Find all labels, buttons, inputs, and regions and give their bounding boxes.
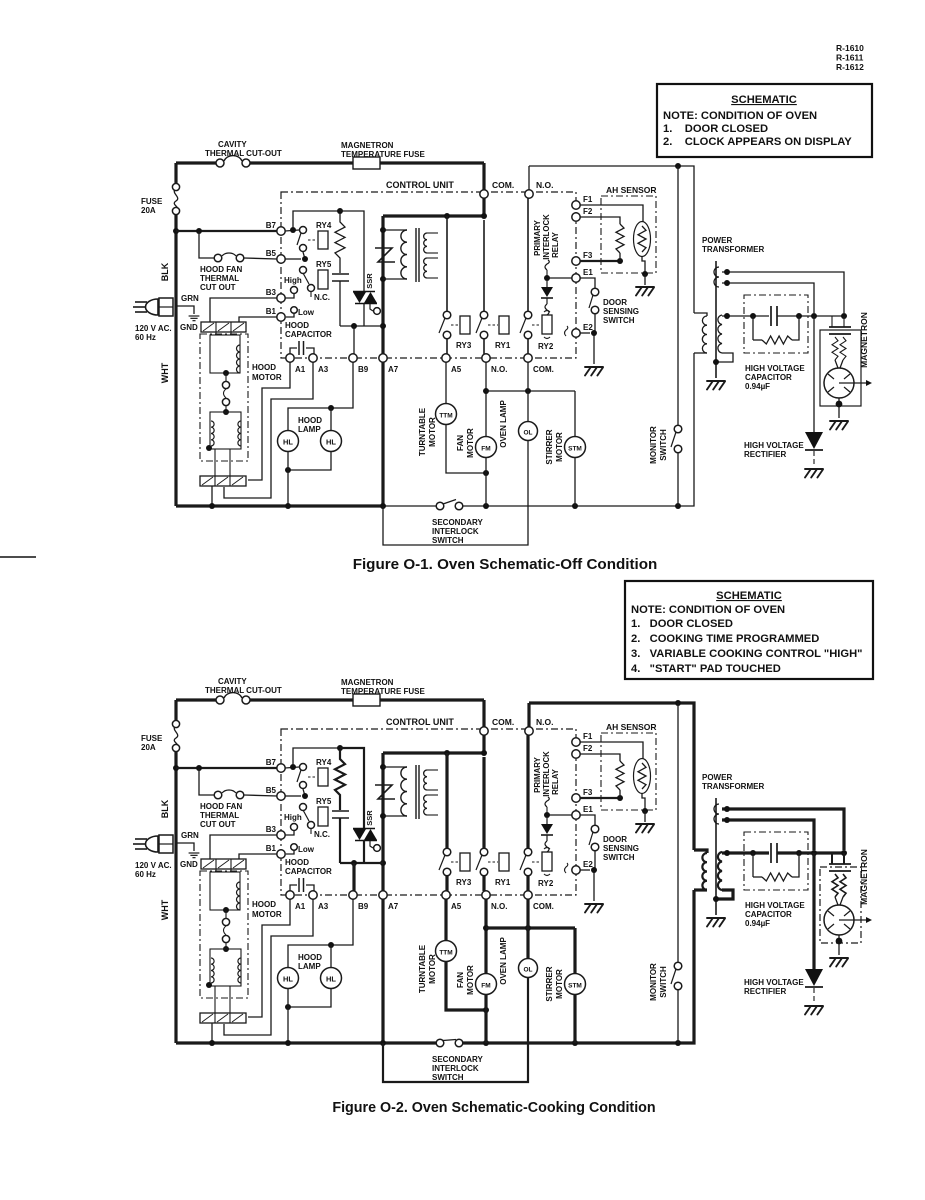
terminal COM. bottom (fig O-1) <box>524 354 532 362</box>
svg-text:Figure O-1. Oven Schematic-Off: Figure O-1. Oven Schematic-Off Condition <box>353 556 658 573</box>
relay RY1 coil (fig O-2) <box>488 853 509 871</box>
wire RY3 column (fig O-2) <box>445 753 448 848</box>
lamp OL (fig O-1) <box>519 422 538 441</box>
node HV mag (fig O-2) <box>841 850 847 856</box>
AH sensor box (fig O-2) <box>601 733 656 810</box>
svg-text:HL: HL <box>326 975 336 984</box>
control unit box (fig O-2) <box>281 729 576 895</box>
relay RY1 contact (fig O-2) <box>476 848 488 876</box>
PIR lower hook (fig O-1) <box>545 304 549 315</box>
label HIGH VOLTAGE CAPACITOR 0.94uF (fig O-2) <box>745 901 805 928</box>
wire door switch to ground (fig O-2) <box>594 851 595 901</box>
svg-text:20A: 20A <box>141 743 156 752</box>
svg-text:MOTOR: MOTOR <box>428 417 437 447</box>
ground HV rectifier (fig O-2) <box>805 1006 823 1015</box>
wire B3 to High (fig O-2) <box>285 831 294 835</box>
wire monitor to neutral (fig O-1) <box>677 453 679 506</box>
relay RY3 coil (fig O-1) <box>451 316 470 334</box>
svg-text:F2: F2 <box>583 207 593 216</box>
lamp HL 2 (fig O-2) <box>321 968 342 989</box>
HV bleed resistor (fig O-2) <box>753 853 799 881</box>
svg-text:FM: FM <box>481 983 490 990</box>
svg-text:GRN: GRN <box>181 294 199 303</box>
node SSR feed (fig O-1) <box>337 208 343 214</box>
wire RY2 column (fig O-1) <box>527 198 529 311</box>
svg-text:NOTE: CONDITION OF OVEN: NOTE: CONDITION OF OVEN <box>631 604 785 616</box>
node upper winding out (fig O-2) <box>223 907 229 913</box>
svg-text:LAMP: LAMP <box>298 425 321 434</box>
svg-text:RY3: RY3 <box>456 878 472 887</box>
label High (fig O-1) <box>284 276 302 285</box>
label HOOD LAMP (fig O-2) <box>298 953 322 971</box>
label F1 (fig O-1) <box>583 195 593 204</box>
wire F3 lead (fig O-2) <box>580 797 618 799</box>
wire TTM return (fig O-1) <box>446 424 486 473</box>
lamp HL 2 (fig O-1) <box>321 431 342 452</box>
hood fan thermal cut out (fig O-1) <box>214 253 244 262</box>
hood motor upper winding (fig O-2) <box>210 872 240 910</box>
label OVEN LAMP (fig O-2) <box>499 937 508 985</box>
svg-text:FAN: FAN <box>456 972 465 988</box>
svg-text:HIGH VOLTAGE: HIGH VOLTAGE <box>745 364 805 373</box>
wire door switch to ground (fig O-1) <box>594 314 595 364</box>
wire RY3 to A5 (fig O-1) <box>446 339 448 354</box>
wire hood fan cutout drop (fig O-2) <box>199 768 214 795</box>
PIR top hook (fig O-2) <box>545 797 549 815</box>
node E2 junction (fig O-1) <box>591 330 597 336</box>
wire SSR feed top (fig O-1) <box>340 211 364 291</box>
wire RY1 column (fig O-1) <box>483 220 485 311</box>
svg-text:F2: F2 <box>583 744 593 753</box>
capacitor C (snubber) (fig O-1) <box>332 274 349 281</box>
svg-text:MOTOR: MOTOR <box>466 428 475 458</box>
wire COM drop (fig O-1) <box>482 163 485 190</box>
wire B5 to selector (fig O-2) <box>285 795 301 797</box>
svg-text:SWITCH: SWITCH <box>659 429 668 461</box>
label FUSE 20A (fig O-1) <box>141 197 163 215</box>
terminal COM top (fig O-2) <box>480 727 488 735</box>
label COM. bottom (fig O-1) <box>533 365 554 374</box>
label B1 (fig O-1) <box>266 307 277 316</box>
svg-text:A5: A5 <box>451 902 462 911</box>
magnetron filament chokes (fig O-2) <box>832 874 846 905</box>
label A7 bottom (fig O-2) <box>388 902 399 911</box>
ground AH sensor (fig O-2) <box>636 824 654 833</box>
svg-text:120 V AC.: 120 V AC. <box>135 324 172 333</box>
svg-text:A7: A7 <box>388 902 399 911</box>
svg-text:MAGNETRON: MAGNETRON <box>859 312 869 368</box>
wire block to neutral (fig O-1) <box>211 486 213 506</box>
node bus RY3 tap (fig O-1) <box>444 213 450 219</box>
svg-text:A7: A7 <box>388 365 399 374</box>
wire filament lead 1 (fig O-1) <box>722 272 844 313</box>
relay RY2 contact (fig O-2) <box>520 848 532 876</box>
svg-text:CONTROL UNIT: CONTROL UNIT <box>386 717 454 727</box>
svg-text:RY4: RY4 <box>316 758 332 767</box>
node neutral plug (fig O-2) <box>209 1040 215 1046</box>
wire BLK trunk to plug (fig O-2) <box>174 752 177 837</box>
label N.O. top (fig O-1) <box>536 180 553 190</box>
svg-text:A3: A3 <box>318 902 329 911</box>
HV capacitor box (fig O-2) <box>744 832 808 890</box>
label E1 (fig O-1) <box>583 268 593 277</box>
node hood fan tap (fig O-1) <box>196 228 202 234</box>
svg-text:E2: E2 <box>583 323 593 332</box>
svg-text:TEMPERATURE FUSE: TEMPERATURE FUSE <box>341 687 426 696</box>
monitor switch (fig O-2) <box>671 962 682 990</box>
wire primary feed (fig O-2) <box>694 850 707 853</box>
svg-text:B9: B9 <box>358 365 369 374</box>
fuse F1 20A (fig O-2) <box>172 720 179 751</box>
wire A5 to TTM (fig O-1) <box>445 362 447 404</box>
hood capacitor (fig O-2) <box>290 878 314 892</box>
wire primary return (fig O-1) <box>694 352 707 354</box>
svg-text:WHT: WHT <box>160 362 170 383</box>
svg-text:HL: HL <box>283 438 293 447</box>
svg-text:B3: B3 <box>266 825 277 834</box>
svg-text:F3: F3 <box>583 251 593 260</box>
wire AH ground stem (fig O-1) <box>644 274 646 285</box>
node HV sec (fig O-2) <box>724 850 730 856</box>
wire WHT neutral trunk (fig O-2) <box>174 837 177 1043</box>
label HOOD CAPACITOR (fig O-1) <box>285 321 332 339</box>
wire F3 lead (fig O-1) <box>580 260 618 262</box>
svg-text:BLK: BLK <box>160 799 170 818</box>
wire HV rectifier ground lead (fig O-2) <box>813 988 815 1003</box>
terminal E1 (fig O-2) <box>572 811 580 819</box>
label B3 (fig O-1) <box>266 288 277 297</box>
svg-text:SENSING: SENSING <box>603 307 639 316</box>
node SSR return tap (fig O-2) <box>380 860 386 866</box>
wire LVT primary bottom lead (fig O-2) <box>383 815 407 817</box>
AH sensor thermistor (fig O-2) <box>634 759 651 794</box>
wire E1 to PIR (fig O-1) <box>547 277 572 279</box>
label AH SENSOR (fig O-2) <box>606 722 657 732</box>
svg-text:SWITCH: SWITCH <box>603 316 635 325</box>
svg-text:RY2: RY2 <box>538 879 554 888</box>
node HV sec (fig O-1) <box>724 313 730 319</box>
svg-text:SECONDARY: SECONDARY <box>432 518 483 527</box>
svg-text:Low: Low <box>298 308 315 317</box>
wire HV bus right (fig O-2) <box>777 851 844 854</box>
label HOOD FAN THERMAL CUT OUT (fig O-2) <box>200 802 242 829</box>
wire RY1 to N.O. (fig O-2) <box>482 876 485 891</box>
label HOOD LAMP (fig O-1) <box>298 416 322 434</box>
ground PT core (fig O-1) <box>707 381 725 390</box>
motor STM (fig O-2) <box>565 974 586 995</box>
terminal B3 (fig O-1) <box>277 294 285 302</box>
wire RY4 to B5 node (fig O-2) <box>303 789 305 796</box>
wire A3 to hood motor (fig O-1) <box>224 362 313 498</box>
wire E2 link (fig O-1) <box>565 326 591 336</box>
svg-text:WHT: WHT <box>160 899 170 920</box>
node hood lamp tap (fig O-1) <box>328 405 334 411</box>
terminal A3 bottom (fig O-2) <box>309 891 317 899</box>
svg-text:MOTOR: MOTOR <box>428 954 437 984</box>
relay RY4 coil (fig O-1) <box>308 231 328 249</box>
relay RY2 contact (fig O-1) <box>520 311 532 339</box>
label F3 (fig O-2) <box>583 788 593 797</box>
lamp HL 1 (fig O-2) <box>278 968 299 989</box>
wire primary return (fig O-2) <box>694 888 707 891</box>
wire F2 lead (fig O-2) <box>580 754 620 761</box>
secondary interlock switch (fig O-1) <box>436 500 463 510</box>
hood motor terminal block top (fig O-2) <box>201 859 246 869</box>
node F3 (fig O-1) <box>617 258 623 264</box>
AH sensor thermistor (fig O-1) <box>634 222 651 257</box>
terminal N.O. top (fig O-2) <box>525 727 533 735</box>
svg-text:B1: B1 <box>266 307 277 316</box>
label A1 bottom (fig O-2) <box>295 902 306 911</box>
wire top right line (fig O-1) <box>529 166 694 313</box>
svg-text:Low: Low <box>298 845 315 854</box>
terminal B7 (fig O-2) <box>277 764 285 772</box>
PT core (fig O-2) <box>715 798 717 915</box>
svg-text:THERMAL CUT-OUT: THERMAL CUT-OUT <box>205 149 282 158</box>
svg-text:FM: FM <box>481 446 490 453</box>
hood motor lower winding (fig O-1) <box>210 412 241 449</box>
label F1 (fig O-2) <box>583 732 593 741</box>
wire lamp returns (fig O-1) <box>288 451 331 470</box>
wire B1 to terminal block (fig O-1) <box>239 317 277 322</box>
svg-text:N.C.: N.C. <box>314 293 330 302</box>
label 120 V AC. 60 Hz (fig O-2) <box>135 861 172 879</box>
svg-text:120 V AC.: 120 V AC. <box>135 861 172 870</box>
label RY3 (fig O-1) <box>456 341 472 350</box>
diode PIR (fig O-2) <box>541 818 553 841</box>
wire filament lead 2 (fig O-2) <box>722 820 814 850</box>
svg-text:High: High <box>284 276 302 285</box>
svg-text:COM.: COM. <box>492 717 514 727</box>
left margin tick <box>0 556 36 558</box>
wire HV rectifier column (fig O-1) <box>813 316 815 432</box>
wire magnetron cathode (fig O-2) <box>838 935 840 955</box>
wire HV rectifier column (fig O-2) <box>812 853 815 969</box>
label HOOD CAPACITOR (fig O-2) <box>285 858 332 876</box>
wire F1 lead (fig O-2) <box>580 742 643 759</box>
terminal F3 (fig O-2) <box>572 794 580 802</box>
node neutral A7 (fig O-1) <box>380 503 386 509</box>
svg-text:NOTE: CONDITION OF OVEN: NOTE: CONDITION OF OVEN <box>663 110 817 122</box>
svg-text:MAGNETRON: MAGNETRON <box>341 678 394 687</box>
terminal A7 bottom (fig O-2) <box>379 891 387 899</box>
svg-text:N.O.: N.O. <box>491 902 507 911</box>
svg-text:A3: A3 <box>318 365 329 374</box>
wire RY3 to A5 (fig O-2) <box>445 876 448 891</box>
relay RY4 coil (fig O-2) <box>308 768 328 786</box>
terminal A5 bottom (fig O-1) <box>442 354 450 362</box>
wire hood fan cutout drop (fig O-1) <box>199 231 214 258</box>
wire monitor trunk (fig O-1) <box>677 166 679 425</box>
relay RY2 coil (fig O-1) <box>532 311 552 339</box>
svg-text:MAGNETRON: MAGNETRON <box>341 141 394 150</box>
contact N.C. (fig O-1) <box>308 285 315 298</box>
resistor R (snubber) (fig O-2) <box>335 750 345 810</box>
wire cap to return (fig O-2) <box>339 818 341 863</box>
svg-text:MOTOR: MOTOR <box>466 965 475 995</box>
node right trunk top (fig O-1) <box>675 163 681 169</box>
PT core (fig O-1) <box>715 261 717 378</box>
fuse F1 20A (fig O-1) <box>172 183 179 214</box>
node hood lamp tap (fig O-2) <box>328 942 334 948</box>
label A1 bottom (fig O-1) <box>295 365 306 374</box>
wire lamp returns (fig O-2) <box>288 988 331 1007</box>
LVT primary winding (fig O-1) <box>401 230 407 279</box>
node neutral fan (fig O-1) <box>483 503 489 509</box>
label AH SENSOR (fig O-1) <box>606 185 657 195</box>
svg-text:B9: B9 <box>358 902 369 911</box>
svg-text:A1: A1 <box>295 902 306 911</box>
node HV rect (fig O-1) <box>811 313 817 319</box>
svg-text:0.94µF: 0.94µF <box>745 382 770 391</box>
node PIR (fig O-1) <box>544 275 550 281</box>
wire N.O. riser (fig O-1) <box>528 166 530 190</box>
label HIGH VOLTAGE RECTIFIER (fig O-1) <box>744 441 804 459</box>
node OL branch (fig O-2) <box>525 925 531 931</box>
svg-text:MONITOR: MONITOR <box>649 426 658 464</box>
wire B9 column (fig O-2) <box>352 863 355 891</box>
wire secondary return (fig O-1) <box>716 353 733 362</box>
wire N.O. to FM (fig O-1) <box>485 362 487 437</box>
svg-text:THERMAL: THERMAL <box>200 274 239 283</box>
svg-text:SENSING: SENSING <box>603 844 639 853</box>
wire cutout to B5 (fig O-2) <box>244 795 277 796</box>
label E2 (fig O-2) <box>583 860 593 869</box>
contact Low (fig O-2) <box>291 844 298 851</box>
node HV mag (fig O-1) <box>841 313 847 319</box>
svg-text:AH SENSOR: AH SENSOR <box>606 185 657 195</box>
svg-text:A1: A1 <box>295 365 306 374</box>
note box 2 (cooking condition) <box>625 581 873 679</box>
svg-text:B5: B5 <box>266 249 277 258</box>
wire LVT primary top lead (fig O-1) <box>383 229 407 231</box>
relay RY3 coil (fig O-2) <box>451 853 470 871</box>
terminal E2 (fig O-1) <box>572 329 580 337</box>
node core ground (fig O-2) <box>713 896 719 902</box>
svg-text:HIGH VOLTAGE: HIGH VOLTAGE <box>744 978 804 987</box>
svg-text:POWER: POWER <box>702 236 732 245</box>
node lamp return (fig O-1) <box>285 467 291 473</box>
wire N.O. riser (fig O-2) <box>527 703 530 727</box>
node filament lead 2 (fig O-2) <box>724 817 730 823</box>
wire sensor bottom link (fig O-1) <box>619 253 621 261</box>
wire neutral bus right (fig O-1) <box>463 353 694 506</box>
label GND (fig O-1) <box>180 323 198 332</box>
svg-text:B1: B1 <box>266 844 277 853</box>
svg-text:N.O.: N.O. <box>491 365 507 374</box>
svg-text:3. VARIABLE COOKING CONTROL: 3. VARIABLE COOKING CONTROL "HIGH" <box>631 648 862 660</box>
wire FM return (fig O-1) <box>485 457 487 506</box>
svg-text:STM: STM <box>568 446 582 453</box>
wire HV bus (fig O-1) <box>722 315 769 317</box>
label High (fig O-2) <box>284 813 302 822</box>
terminal B1 (fig O-1) <box>277 313 285 321</box>
wire COM drop (fig O-2) <box>482 700 485 727</box>
terminal N.O. bottom (fig O-2) <box>482 891 490 899</box>
wire GRN lead (fig O-2) <box>176 843 194 851</box>
svg-text:MOTOR: MOTOR <box>555 969 564 999</box>
label N.O. bottom (fig O-1) <box>491 365 507 374</box>
wire WHT neutral trunk (fig O-1) <box>174 300 177 506</box>
node core ground (fig O-1) <box>713 359 719 365</box>
svg-text:POWER: POWER <box>702 773 732 782</box>
wire top line mid (fig O-1) <box>250 161 484 164</box>
label RY2 (fig O-2) <box>538 879 554 888</box>
ground magnetron (fig O-2) <box>830 958 848 967</box>
node LVT primary bottom (fig O-1) <box>380 276 386 282</box>
svg-text:HL: HL <box>326 438 336 447</box>
wire trunk to B7 (fig O-2) <box>176 767 277 769</box>
label BLK (fig O-1) <box>160 262 170 281</box>
node filament lead 1 (fig O-1) <box>724 269 730 275</box>
node neutral monitor (fig O-1) <box>675 503 681 509</box>
node filament lead 2 (fig O-1) <box>724 280 730 286</box>
relay RY1 coil (fig O-1) <box>488 316 509 334</box>
wire trunk to B7 (fig O-1) <box>176 230 277 232</box>
wire lamp return drop (fig O-1) <box>287 451 289 506</box>
svg-text:F1: F1 <box>583 195 593 204</box>
svg-text:Figure O-2. Oven Schematic-Coo: Figure O-2. Oven Schematic-Cooking Condi… <box>332 1100 655 1116</box>
svg-text:SSR: SSR <box>365 273 374 289</box>
motor TTM (fig O-2) <box>436 941 457 962</box>
label PRIMARY INTERLOCK RELAY (fig O-2) <box>533 751 560 797</box>
wire GRN lead (fig O-1) <box>176 306 194 314</box>
label WHT (fig O-1) <box>160 362 170 383</box>
svg-text:N.O.: N.O. <box>536 717 553 727</box>
wire LVT primary top lead (fig O-2) <box>383 766 407 768</box>
svg-text:HOOD FAN: HOOD FAN <box>200 802 242 811</box>
wire STM return (fig O-2) <box>573 994 576 1043</box>
node AH ground (fig O-2) <box>642 808 648 814</box>
svg-text:A5: A5 <box>451 365 462 374</box>
node right trunk top (fig O-2) <box>675 700 681 706</box>
svg-text:COM.: COM. <box>533 902 554 911</box>
wire top line left (fig O-1) <box>176 161 216 164</box>
label CAVITY THERMAL CUT-OUT (fig O-1) <box>205 140 282 158</box>
svg-text:HIGH VOLTAGE: HIGH VOLTAGE <box>745 901 805 910</box>
hood fan thermal cut out (fig O-2) <box>214 790 244 799</box>
wire cutout to B5 (fig O-1) <box>244 258 277 259</box>
AH sensor box (fig O-1) <box>601 196 656 273</box>
label GRN (fig O-1) <box>181 294 199 303</box>
wire SSR return bus (fig O-1) <box>340 325 383 327</box>
terminal B3 (fig O-2) <box>277 831 285 839</box>
wire F2 lead (fig O-1) <box>580 217 620 224</box>
label HOOD MOTOR (fig O-2) <box>252 900 282 919</box>
wire E1 to PIR (fig O-2) <box>547 814 572 816</box>
node filament lead 1 (fig O-2) <box>724 806 730 812</box>
node lower winding out (fig O-1) <box>206 445 212 451</box>
node HV rect (fig O-2) <box>811 850 817 856</box>
diode HV rectifier (fig O-2) <box>805 969 823 987</box>
svg-text:RY4: RY4 <box>316 221 332 230</box>
wire lamp return drop (fig O-2) <box>287 988 289 1043</box>
svg-text:TTM: TTM <box>439 413 452 420</box>
label B9 bottom (fig O-2) <box>358 902 369 911</box>
svg-text:MOTOR: MOTOR <box>252 910 282 919</box>
label CONTROL UNIT (fig O-2) <box>386 717 454 727</box>
wire secondary return (fig O-2) <box>716 890 733 899</box>
label STIRRER MOTOR (fig O-1) <box>545 429 564 464</box>
node neutral stirrer (fig O-2) <box>572 1040 578 1046</box>
label F2 (fig O-2) <box>583 744 593 753</box>
svg-text:B7: B7 <box>266 221 277 230</box>
SSR triac pair (fig O-1) <box>353 292 380 315</box>
magnetron filament chokes (fig O-1) <box>832 337 846 368</box>
wire top line mid (fig O-2) <box>250 698 484 701</box>
svg-text:HL: HL <box>283 975 293 984</box>
node neutral plug (fig O-1) <box>209 503 215 509</box>
